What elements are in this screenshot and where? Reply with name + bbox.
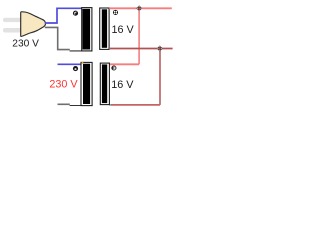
wire: gray neutral from plug to T1 primary bottom	[45, 27, 70, 49]
wire: blue live from plug to T1 primary top	[45, 8, 82, 23]
junction node J2	[157, 46, 162, 51]
transformer T2 secondary coil	[100, 63, 109, 105]
transformer T2 primary coil body bottom outline	[70, 105, 93, 107]
mains plug P1: top prong	[3, 18, 22, 22]
wire: dark red T1 secondary bottom	[110, 48, 173, 50]
junction node J1	[137, 6, 142, 11]
T2 primary terminal marker (orange)	[82, 62, 84, 64]
transformer T1 secondary coil	[100, 8, 109, 49]
svg-text:16 V: 16 V	[111, 79, 134, 91]
svg-text:16 V: 16 V	[112, 24, 135, 36]
mains plug P1: bottom prong	[3, 28, 22, 33]
svg-text:230 V: 230 V	[12, 38, 39, 49]
T1 secondary winding marker	[113, 10, 118, 15]
transformer T1 primary coil body bottom outline	[70, 50, 93, 52]
wire: gray dangling to T2 primary bottom	[58, 103, 70, 105]
wire: red vertical from junction J1 down to T2 secondary top	[138, 8, 140, 64]
mains plug P1: body	[21, 12, 46, 37]
transformer T1 primary coil	[82, 8, 92, 51]
T2 secondary winding marker	[111, 65, 116, 70]
wire: red vertical right down to T2 secondary bottom	[159, 49, 161, 105]
transformer T2 primary coil	[81, 62, 92, 105]
wire: cyan stub T2 secondary bottom	[109, 104, 111, 106]
wire: red T2 secondary bottom horizontal	[111, 104, 160, 106]
T2 primary winding marker	[73, 66, 78, 71]
wire: red T1 secondary top	[109, 7, 172, 9]
wire: red T2 secondary top horizontal	[109, 63, 139, 65]
wire: blue dangling to T2 primary top	[58, 63, 83, 65]
svg-text:230 V: 230 V	[49, 78, 78, 90]
T1 primary winding marker	[73, 11, 78, 16]
